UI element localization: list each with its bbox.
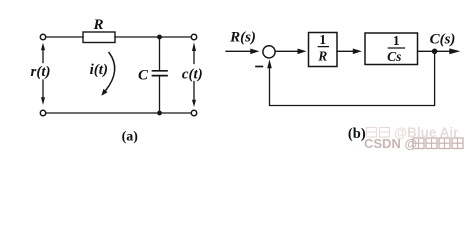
svg-text:c(t): c(t) [182,67,203,83]
wire: bottom horizontal (a) [46,112,192,114]
block U2: 1/Cs [365,33,418,65]
capacitor C [153,37,168,113]
wire: top-right horizontal (a) [115,36,191,38]
arrowhead: into block 1/R [298,49,307,55]
wire: summing junction to block 1/R [275,50,298,52]
wire: feedback path [270,51,435,105]
fraction bar of 1/R [318,46,328,48]
svg-text:R(s): R(s) [229,30,256,46]
wire: top-left horizontal (a) [46,36,83,38]
resistor R [83,32,115,43]
terminal: top-right [191,34,196,39]
svg-text:CSDN @: CSDN @ [364,136,417,151]
arrow: c(t) lower (points down at bottom-right terminal) [192,82,196,108]
block U1: 1/R [309,33,338,67]
fraction bar of 1/Cs [388,47,404,49]
terminal: top-left [40,34,45,39]
svg-text:(a): (a) [122,130,139,145]
watermark: zhihu @Blue Air (light) [367,125,460,140]
wire: output C(s) [418,50,450,52]
wire: input R(s) [226,50,251,52]
watermark: CSDN @wulianjiangxin (pink) [364,136,463,151]
svg-text:r(t): r(t) [31,64,51,80]
svg-text:1: 1 [319,32,326,47]
terminal: bottom-left [40,110,45,115]
node: output pick-off point [432,49,438,55]
svg-text:C: C [138,67,149,83]
arrow: r(t) upper (points up at top-left terminal) [41,43,45,63]
svg-text:i(t): i(t) [90,62,108,78]
arrow: current i(t) curved [101,53,114,96]
arrow: c(t) upper (points up at top-right terminal) [192,42,196,63]
arrowhead: output [449,48,460,54]
arrowhead: into summing junction (from left) [250,49,259,55]
arrowhead: into block 1/Cs [353,49,362,55]
summing junction S1 [263,46,275,58]
node: capacitor bottom junction [157,111,162,116]
minus sign at summing junction [256,66,262,68]
svg-text:R: R [317,48,327,63]
node: capacitor top junction [157,35,162,40]
arrowhead: feedback into summing junction (points up) [267,59,272,68]
terminal: bottom-right [191,110,196,115]
svg-text:C(s): C(s) [430,31,456,47]
svg-text:1: 1 [393,33,400,48]
wire: block 1/R to block 1/Cs [337,50,353,52]
arrow: r(t) lower (points down at bottom-left terminal) [41,80,45,105]
svg-text:Cs: Cs [387,49,401,64]
svg-text:R: R [92,17,103,33]
